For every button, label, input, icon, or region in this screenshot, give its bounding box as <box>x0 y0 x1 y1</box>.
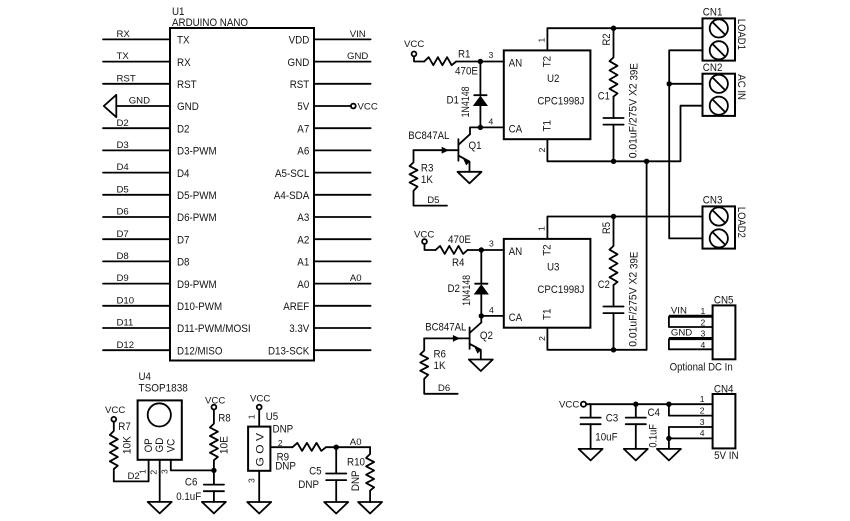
U1 right pin names <box>268 35 310 358</box>
wire CN2 pin1 stub <box>669 83 702 85</box>
svg-text:DNP: DNP <box>298 479 319 491</box>
svg-text:D7: D7 <box>117 229 129 240</box>
ground CN4 <box>657 449 681 461</box>
power symbol VCC (R8) <box>205 396 225 410</box>
svg-text:D2: D2 <box>128 471 140 482</box>
svg-text:D6-PWM: D6-PWM <box>177 212 217 224</box>
svg-text:CN4: CN4 <box>714 383 734 395</box>
svg-text:D6: D6 <box>117 207 129 218</box>
svg-text:RST: RST <box>177 79 197 91</box>
junction R8/pin3/C6 <box>211 468 216 473</box>
svg-text:G O V: G O V <box>255 432 267 466</box>
resistor R9 <box>275 443 326 473</box>
ground Q2 <box>469 360 493 372</box>
svg-text:RST: RST <box>290 79 310 91</box>
resistor R1 <box>424 49 478 78</box>
svg-text:VIN: VIN <box>671 305 687 316</box>
junction T2 rail / R5 <box>611 214 616 219</box>
svg-text:T1: T1 <box>542 309 554 320</box>
connector CN3 <box>703 195 747 249</box>
svg-text:Q2: Q2 <box>480 330 493 342</box>
wire U5 pin3 to ground <box>258 471 260 502</box>
svg-text:D5: D5 <box>117 184 129 195</box>
svg-text:U4: U4 <box>139 371 152 383</box>
U1 left pin wires <box>103 39 170 350</box>
junction CN4 pin4 <box>666 436 671 441</box>
svg-text:1: 1 <box>247 414 257 419</box>
svg-text:1: 1 <box>536 38 546 43</box>
svg-text:D4: D4 <box>117 162 130 173</box>
svg-text:VCC: VCC <box>559 400 579 411</box>
svg-text:39E: 39E <box>628 252 640 269</box>
junction CN2 pin1 <box>667 81 672 86</box>
ground U4 pin2 <box>148 502 172 514</box>
svg-text:CN2: CN2 <box>703 62 723 74</box>
svg-text:CA: CA <box>509 312 523 324</box>
svg-text:2: 2 <box>537 147 547 152</box>
wire R1 to U2 AN <box>456 61 504 63</box>
junction CA node <box>478 125 483 130</box>
wire U3 T1 rail <box>547 328 646 350</box>
svg-text:1: 1 <box>701 306 706 316</box>
power symbol VCC on 5V pin <box>351 102 378 113</box>
regulator U5 <box>248 410 293 471</box>
optocoupler U2 <box>504 50 591 139</box>
wire U2 T2 to CN1 pin1 <box>547 28 702 50</box>
junction AN node <box>478 59 483 64</box>
svg-text:10uF: 10uF <box>595 431 618 443</box>
svg-text:R1: R1 <box>458 49 471 61</box>
svg-text:VCC: VCC <box>404 39 424 50</box>
ground C4 <box>624 449 648 461</box>
ground C6 <box>202 502 226 514</box>
svg-text:T2: T2 <box>542 56 554 67</box>
svg-text:D9: D9 <box>117 273 129 284</box>
svg-text:VCC: VCC <box>205 396 225 407</box>
svg-text:0.01uF/275V X2: 0.01uF/275V X2 <box>627 83 639 158</box>
wire R7 to U4 pin1 (net D2) <box>114 460 149 482</box>
wire CN4 pin3/pin4 to ground <box>669 427 713 449</box>
connector CN5 <box>713 295 736 360</box>
svg-text:3.3V: 3.3V <box>289 323 310 335</box>
power symbol VCC (5V in) <box>559 400 586 411</box>
wire U4 pin3 to C6 node <box>171 460 214 471</box>
svg-text:1K: 1K <box>421 174 434 186</box>
svg-text:470E: 470E <box>455 66 478 78</box>
svg-text:4: 4 <box>489 305 494 315</box>
diode D2 <box>448 250 489 316</box>
svg-text:RST: RST <box>117 73 136 84</box>
svg-text:CN1: CN1 <box>703 7 723 19</box>
capacitor C5 <box>298 447 346 502</box>
ground Q1 <box>458 172 482 184</box>
svg-text:1N4148: 1N4148 <box>461 275 473 306</box>
connector CN1 <box>703 7 747 61</box>
svg-text:470E: 470E <box>448 234 471 246</box>
svg-text:TSOP1838: TSOP1838 <box>139 383 188 395</box>
svg-text:Optional DC In: Optional DC In <box>670 362 733 374</box>
svg-text:D6: D6 <box>438 383 450 394</box>
svg-text:3: 3 <box>160 469 170 474</box>
svg-text:T2: T2 <box>542 244 554 255</box>
junction C4 top <box>633 402 638 407</box>
svg-text:R10: R10 <box>347 456 365 468</box>
junction CA2 node <box>479 313 484 318</box>
wire CN1 pin2 to CN3 pin2 <box>669 50 702 238</box>
svg-text:3: 3 <box>701 329 706 339</box>
svg-text:AN: AN <box>509 246 523 258</box>
svg-text:GND: GND <box>177 101 199 113</box>
junction CN4 pin1/2 <box>666 402 671 407</box>
svg-text:R8: R8 <box>218 413 231 425</box>
svg-text:CPC1998J: CPC1998J <box>537 284 584 296</box>
svg-text:VDD: VDD <box>289 35 310 47</box>
svg-text:OP: OP <box>143 438 155 452</box>
svg-text:D3-PWM: D3-PWM <box>177 146 217 158</box>
ground R10 <box>358 502 382 514</box>
svg-text:D1: D1 <box>447 94 460 106</box>
wire CN5 pin4 loop <box>669 339 713 349</box>
capacitor C6 <box>176 470 224 503</box>
power symbol VCC top (R1 feed) <box>404 39 424 56</box>
svg-text:VCC: VCC <box>358 102 378 113</box>
wire CA2 to U3 <box>481 316 504 323</box>
svg-text:D12: D12 <box>117 340 135 351</box>
svg-text:D2: D2 <box>177 123 190 135</box>
svg-text:4: 4 <box>489 116 494 126</box>
optocoupler U3 <box>504 239 591 328</box>
svg-text:D8: D8 <box>177 257 190 269</box>
svg-text:2: 2 <box>537 336 547 341</box>
svg-text:TX: TX <box>117 51 130 62</box>
svg-text:AC IN: AC IN <box>735 74 747 100</box>
svg-text:U2: U2 <box>547 73 560 85</box>
svg-text:T1: T1 <box>542 120 554 131</box>
svg-text:R7: R7 <box>118 421 131 433</box>
resistor R10 <box>347 447 374 502</box>
svg-text:GND: GND <box>129 96 150 107</box>
resistor R7 <box>110 421 134 481</box>
svg-text:GND: GND <box>347 51 368 62</box>
ground C3 <box>579 449 603 461</box>
transistor Q1 <box>408 130 481 172</box>
junction C1 bottom <box>611 159 616 164</box>
svg-text:1: 1 <box>700 394 705 404</box>
svg-text:A7: A7 <box>297 123 309 135</box>
junction T2 rail / R2 <box>611 26 616 31</box>
wire CN5 pin3 (GND) <box>670 337 713 339</box>
U1 left pin names <box>177 35 251 358</box>
svg-text:A0: A0 <box>350 437 362 448</box>
wire U5 pin2 <box>270 446 292 448</box>
svg-text:A1: A1 <box>297 257 309 269</box>
arduino U1 body <box>170 6 314 361</box>
svg-text:D7: D7 <box>177 234 190 246</box>
svg-text:3: 3 <box>489 239 494 249</box>
svg-text:D13-SCK: D13-SCK <box>268 345 310 357</box>
svg-text:D5-PWM: D5-PWM <box>177 190 217 202</box>
capacitor C1 <box>598 83 640 161</box>
svg-text:D10: D10 <box>117 295 135 306</box>
svg-text:4: 4 <box>701 340 706 350</box>
svg-text:TX: TX <box>177 35 190 47</box>
net flag GND arrow <box>104 95 117 117</box>
svg-text:AREF: AREF <box>283 301 309 313</box>
wire VCC to R1 <box>414 56 424 61</box>
svg-text:VCC: VCC <box>105 405 125 416</box>
svg-text:3: 3 <box>247 478 257 483</box>
ground U5 <box>247 502 271 514</box>
svg-text:C2: C2 <box>598 279 610 291</box>
svg-text:LOAD1: LOAD1 <box>735 19 747 50</box>
svg-text:1: 1 <box>536 226 546 231</box>
power symbol VCC (U5) <box>250 394 270 410</box>
svg-text:10E: 10E <box>219 436 231 454</box>
wire U2 T1 rail <box>547 106 702 162</box>
svg-text:D11: D11 <box>117 318 134 329</box>
svg-text:ARDUINO NANO: ARDUINO NANO <box>172 17 248 29</box>
capacitor C4 <box>626 404 660 449</box>
svg-text:CA: CA <box>509 123 523 135</box>
svg-text:VIN: VIN <box>350 29 366 40</box>
svg-text:D3: D3 <box>117 140 129 151</box>
svg-text:VCC: VCC <box>414 229 434 240</box>
svg-text:DNP: DNP <box>350 470 362 491</box>
svg-text:GND: GND <box>288 57 310 69</box>
capacitor C2 <box>598 272 640 350</box>
resistor R6 <box>420 338 458 393</box>
svg-text:C3: C3 <box>606 412 619 424</box>
svg-text:39E: 39E <box>628 63 640 80</box>
wire R4 to U3 AN <box>468 249 504 251</box>
wire CN5 pin2 loop <box>669 317 713 327</box>
svg-text:VCC: VCC <box>250 394 270 405</box>
svg-text:R6: R6 <box>434 349 447 361</box>
svg-text:CN3: CN3 <box>703 195 723 207</box>
power symbol VCC (R7) <box>105 405 125 422</box>
wire U3 T2 to CN3 pin1 <box>547 217 702 239</box>
svg-text:D10-PWM: D10-PWM <box>177 301 222 313</box>
svg-text:A5-SCL: A5-SCL <box>275 168 309 180</box>
svg-text:A6: A6 <box>297 146 309 158</box>
svg-text:U3: U3 <box>547 262 560 274</box>
svg-text:10K: 10K <box>122 435 134 454</box>
svg-text:R3: R3 <box>421 163 434 175</box>
svg-text:RX: RX <box>177 57 191 69</box>
resistor R4 <box>436 234 472 269</box>
svg-text:AN: AN <box>509 57 523 69</box>
svg-text:A0: A0 <box>350 273 362 284</box>
svg-text:D12/MISO: D12/MISO <box>177 345 223 357</box>
svg-text:1N4148: 1N4148 <box>460 86 472 117</box>
svg-text:R2: R2 <box>601 34 613 46</box>
svg-text:A0: A0 <box>297 279 309 291</box>
svg-text:RX: RX <box>117 29 131 40</box>
svg-text:LOAD2: LOAD2 <box>735 207 747 238</box>
svg-text:D9-PWM: D9-PWM <box>177 279 217 291</box>
svg-text:D8: D8 <box>117 251 129 262</box>
svg-text:DNP: DNP <box>275 460 296 472</box>
junction C5 top <box>334 445 339 450</box>
svg-text:3: 3 <box>700 417 705 427</box>
svg-text:D4: D4 <box>177 168 190 180</box>
capacitor C3 <box>581 404 619 449</box>
svg-text:C6: C6 <box>185 477 198 489</box>
svg-text:1K: 1K <box>434 360 447 372</box>
svg-text:VC: VC <box>165 439 177 453</box>
U1 right pin wires <box>314 39 371 350</box>
svg-text:0.1uF: 0.1uF <box>648 424 660 448</box>
svg-text:5V IN: 5V IN <box>714 450 739 462</box>
svg-text:D11-PWM/MOSI: D11-PWM/MOSI <box>177 323 251 335</box>
svg-text:C5: C5 <box>309 466 322 478</box>
diode D1 <box>447 62 489 128</box>
svg-text:2: 2 <box>701 318 706 328</box>
wire R9 to A0/R10 <box>326 446 370 448</box>
svg-text:D2: D2 <box>448 283 461 295</box>
svg-text:3: 3 <box>489 50 494 60</box>
svg-text:D2: D2 <box>117 118 129 129</box>
connector CN4 <box>713 383 736 448</box>
resistor R5 <box>601 217 640 286</box>
IR receiver U4 <box>138 371 188 460</box>
wire CA to U2 <box>470 127 504 134</box>
resistor R8 <box>210 410 231 471</box>
svg-text:D5: D5 <box>427 195 439 206</box>
svg-text:Q1: Q1 <box>469 140 482 152</box>
power symbol VCC (R4 feed) <box>414 229 434 244</box>
wire U4 pin2 to ground <box>159 460 161 502</box>
transistor Q2 <box>424 321 493 359</box>
junction C2 bottom <box>611 347 616 352</box>
connector CN2 <box>703 62 747 116</box>
svg-text:CN5: CN5 <box>714 295 734 307</box>
svg-text:A3: A3 <box>297 212 309 224</box>
svg-text:U5: U5 <box>266 411 279 423</box>
svg-text:R4: R4 <box>452 257 465 269</box>
svg-text:2: 2 <box>700 405 705 415</box>
svg-text:BC847AL: BC847AL <box>408 130 449 142</box>
svg-text:A2: A2 <box>297 234 309 246</box>
svg-text:5V: 5V <box>297 101 310 113</box>
svg-text:DNP: DNP <box>273 424 294 436</box>
wire CN4 pin2 <box>669 404 713 415</box>
svg-text:C1: C1 <box>598 91 610 103</box>
svg-text:GD: GD <box>154 438 166 453</box>
svg-text:0.01uF/275V X2: 0.01uF/275V X2 <box>627 272 639 347</box>
svg-text:CPC1998J: CPC1998J <box>537 95 584 107</box>
svg-text:GND: GND <box>671 328 692 339</box>
svg-text:A4-SDA: A4-SDA <box>274 190 310 202</box>
svg-text:4: 4 <box>700 428 705 438</box>
ground C5 <box>324 502 348 514</box>
svg-text:C4: C4 <box>648 407 661 419</box>
wire CN5 pin1 (VIN) <box>670 315 713 317</box>
resistor R3 <box>410 150 448 205</box>
svg-text:2: 2 <box>149 470 159 475</box>
resistor R2 <box>601 28 640 96</box>
junction T1 rail to U3 <box>644 159 649 164</box>
wire T1 rail down to U3 T1 rail <box>646 161 648 349</box>
wire VCC rail to CN4 pin1 <box>586 403 713 405</box>
svg-text:0.1uF: 0.1uF <box>176 491 201 503</box>
junction AN2 node <box>479 247 484 252</box>
svg-text:BC847AL: BC847AL <box>425 321 466 333</box>
svg-text:R5: R5 <box>601 222 613 234</box>
wire VCC to R4 <box>425 244 436 250</box>
